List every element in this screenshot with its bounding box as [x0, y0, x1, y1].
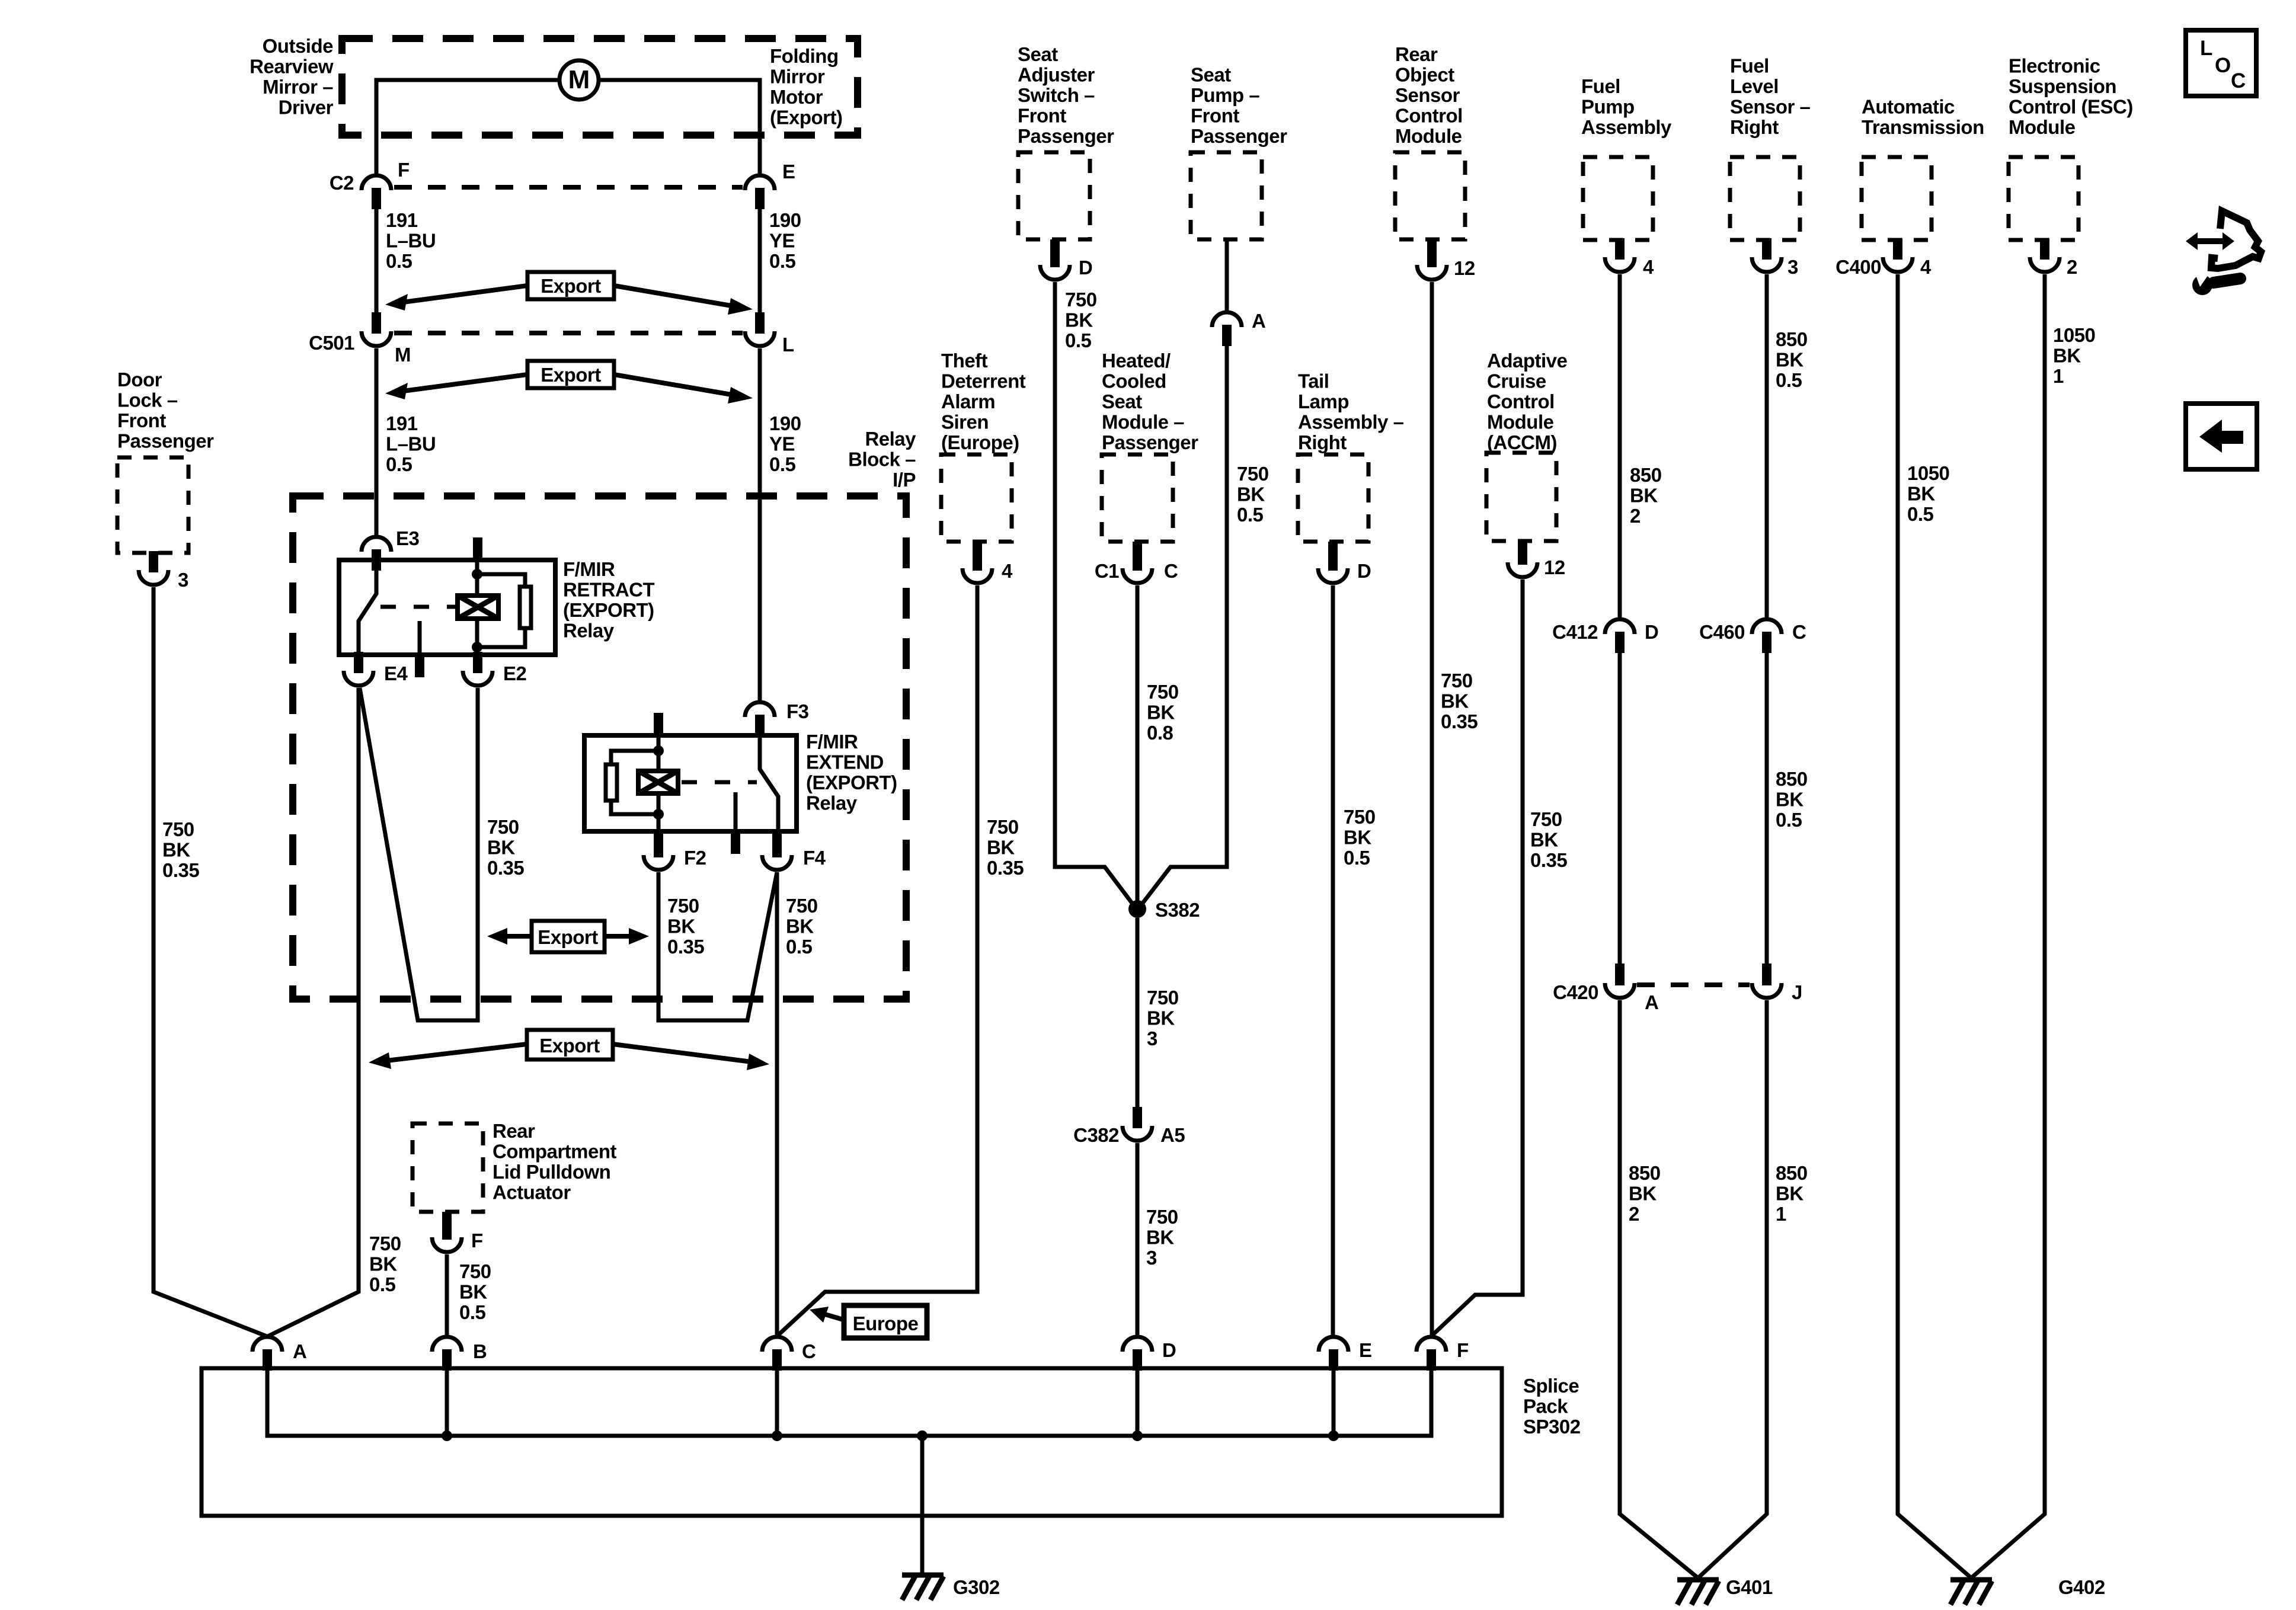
svg-text:B: B: [473, 1340, 487, 1362]
svg-text:E4: E4: [384, 662, 408, 684]
wire rear object to F: [1430, 282, 1434, 1335]
wire C420 J to G401: [1699, 1000, 1767, 1577]
svg-text:Export: Export: [541, 364, 601, 386]
relay K1 actuation dashed link: [380, 605, 458, 609]
Door Lock - Front Passenger: [117, 369, 214, 553]
Outside Rearview Mirror - Driver box: [250, 35, 858, 135]
Rear Compartment Lid Pulldown Actuator: [412, 1120, 617, 1212]
ACCM pin 12: [1508, 541, 1565, 578]
rear object pin 12: [1417, 239, 1475, 280]
svg-text:C1: C1: [1095, 560, 1119, 582]
svg-text:S382: S382: [1155, 899, 1200, 921]
connector F4: [762, 831, 826, 870]
auto transmission pin C400 4: [1835, 238, 1932, 278]
relay K1 resistor: [520, 587, 531, 628]
svg-text:3: 3: [1787, 256, 1798, 278]
Splice Pack SP302 box: [202, 1368, 1581, 1516]
heated pin C1-C: [1095, 542, 1178, 583]
wire theft to C: [778, 585, 977, 1335]
svg-text:C: C: [2231, 69, 2246, 92]
wire C382 to D: [1136, 1143, 1140, 1335]
splice pack connector D: [1123, 1337, 1176, 1371]
svg-text:Export: Export: [541, 275, 601, 297]
svg-text:C382: C382: [1073, 1124, 1119, 1146]
svg-text:C501: C501: [309, 332, 354, 354]
connector C420 J: [1752, 964, 1802, 1003]
svg-text:G402: G402: [2058, 1576, 2105, 1598]
svg-text:F: F: [398, 159, 410, 181]
svg-text:C400: C400: [1835, 256, 1881, 278]
relay K2 resistor branch: [611, 751, 658, 814]
legend back arrow box: [2186, 404, 2257, 469]
Relay Block - I/P box: [293, 428, 916, 999]
ground G302: [902, 1575, 1000, 1600]
svg-text:L: L: [2200, 37, 2212, 60]
ground G401: [1677, 1576, 1773, 1605]
wire E4 down to A: [268, 688, 359, 1336]
C2 connector dashed line: [394, 185, 743, 190]
relay K2 unused pin: [731, 792, 740, 854]
wire fuel level to C460: [1765, 274, 1769, 617]
relay K1 coil wires: [475, 560, 479, 655]
wire heated to S382: [1136, 585, 1140, 909]
svg-text:Export: Export: [538, 926, 598, 948]
svg-text:E2: E2: [503, 662, 527, 684]
ground G402: [1950, 1576, 2105, 1605]
relay K1 F/MIR RETRACT box: [339, 560, 555, 655]
Fuel Level Sensor - Right: [1730, 55, 1811, 241]
legend LOC box: [2186, 30, 2256, 96]
svg-text:4: 4: [1643, 256, 1654, 278]
wire seat pump upper: [1225, 239, 1229, 311]
svg-text:Europe: Europe: [853, 1313, 919, 1334]
motor M1: [559, 60, 599, 100]
Export callout 3: [487, 921, 649, 952]
svg-text:C: C: [802, 1340, 816, 1362]
svg-text:A: A: [1252, 310, 1265, 332]
theft pin 4: [962, 542, 1013, 583]
wire C412 to C420: [1618, 653, 1622, 965]
splice pack internal bus: [267, 1369, 1431, 1436]
connector C420 A: [1553, 964, 1658, 1013]
connector C501 pin M: [309, 312, 411, 366]
wire 191 lower: [375, 348, 379, 535]
wire seat pump to S382: [1141, 346, 1227, 905]
relay K1 top pin stub: [473, 537, 482, 560]
splice pack connector E: [1319, 1337, 1372, 1371]
relay K2 actuation dashed link: [682, 780, 757, 785]
wire auto transmission to G402: [1898, 274, 1971, 1577]
splice pack connector A: [252, 1337, 306, 1371]
connector F2: [644, 831, 706, 870]
wire to G302: [920, 1436, 925, 1574]
svg-text:2: 2: [2067, 256, 2077, 278]
door lock pin 3: [139, 551, 188, 591]
wire seat adjuster to S382: [1055, 282, 1134, 905]
connector E4: [344, 652, 408, 686]
relay K2 junction dots: [653, 745, 664, 756]
relay K1 resistor branch: [477, 574, 525, 647]
connector C460 C: [1699, 619, 1806, 653]
svg-text:4: 4: [1002, 560, 1013, 582]
wire F2 to F4 U-turn: [658, 872, 777, 1020]
connector C382 A5: [1073, 1107, 1185, 1146]
tail lamp pin D: [1318, 542, 1371, 583]
wire F4 down to C: [775, 872, 779, 1335]
svg-text:D: D: [1645, 621, 1658, 643]
svg-text:F: F: [1457, 1339, 1469, 1361]
splice S382: [1128, 899, 1200, 921]
connector F3: [745, 700, 809, 736]
wire motor right: [599, 80, 760, 174]
svg-text:F: F: [471, 1230, 483, 1251]
relay K2 top pin stub: [654, 713, 663, 735]
wire rear compartment to B: [445, 1254, 449, 1335]
svg-text:F2: F2: [684, 847, 706, 869]
ESC pin 2: [2030, 238, 2077, 278]
connector E2: [463, 652, 527, 686]
wire C420 to G401: [1620, 1000, 1697, 1577]
svg-text:12: 12: [1454, 257, 1475, 279]
Adaptive Cruise Control Module (ACCM): [1486, 350, 1568, 541]
Seat Adjuster Switch - Front Passenger: [1018, 43, 1114, 239]
relay K2 resistor: [606, 764, 617, 801]
svg-text:E: E: [782, 161, 795, 183]
fuel level pin 3: [1752, 238, 1798, 278]
wire C460 to C420: [1765, 653, 1769, 965]
fuel pump pin 4: [1605, 238, 1654, 278]
svg-text:F3: F3: [786, 700, 809, 722]
wire door lock to A: [154, 587, 267, 1336]
Export callout 1: [385, 272, 753, 315]
Electronic Suspension Control (ESC) Module: [2009, 55, 2133, 241]
connector C2 pin E: [745, 161, 795, 209]
svg-text:E: E: [1359, 1339, 1372, 1361]
relay K2 switch: [760, 737, 778, 831]
relay K1 coil: [458, 596, 498, 619]
svg-text:C: C: [1792, 621, 1806, 643]
svg-text:L: L: [782, 334, 794, 356]
relay K1 switch: [359, 561, 376, 655]
svg-text:C460: C460: [1699, 621, 1745, 643]
svg-text:E3: E3: [396, 527, 420, 549]
Fuel Pump Assembly: [1581, 75, 1672, 240]
Europe callout: [810, 1305, 927, 1338]
rear compartment pin F: [432, 1212, 483, 1252]
relay K1 junction dots: [472, 569, 482, 580]
svg-text:O: O: [2215, 54, 2231, 77]
wire fuel pump to C412: [1618, 274, 1622, 617]
svg-text:G302: G302: [953, 1576, 1000, 1598]
svg-text:12: 12: [1544, 556, 1565, 578]
svg-text:4: 4: [1920, 256, 1932, 278]
svg-text:M: M: [395, 344, 411, 366]
wire ESC to G402: [1972, 274, 2045, 1577]
svg-text:C420: C420: [1553, 981, 1598, 1003]
wire S382 to C382: [1136, 918, 1140, 1114]
C501 connector dashed line: [394, 331, 743, 335]
Automatic Transmission: [1862, 96, 1984, 241]
C420 dashed line: [1637, 982, 1750, 987]
svg-text:A: A: [1645, 991, 1658, 1013]
svg-text:M: M: [568, 65, 590, 94]
svg-text:C412: C412: [1552, 621, 1598, 643]
Export callout 4: [369, 1030, 769, 1070]
wire tail lamp to E: [1331, 585, 1335, 1335]
Export callout 2: [385, 361, 753, 404]
legend component icon: [2186, 211, 2261, 295]
Tail Lamp Assembly - Right: [1298, 370, 1404, 542]
relay K2 coil: [638, 771, 678, 793]
seat adjuster pin D: [1040, 239, 1092, 280]
splice bus junction dots: [442, 1430, 1339, 1441]
splice pack connector C: [762, 1337, 816, 1371]
wire E4 to E2 U-turn: [360, 688, 478, 1020]
wire 191 upper: [375, 209, 379, 313]
Seat Pump - Front Passenger: [1191, 64, 1287, 240]
svg-text:D: D: [1079, 257, 1092, 279]
Rear Object Sensor Control Module: [1395, 43, 1465, 239]
relay K2 coil wires: [657, 735, 661, 831]
svg-text:F4: F4: [803, 847, 826, 869]
wire 190 upper: [758, 209, 762, 700]
relay K1 unused pin: [415, 621, 424, 677]
wire motor left: [376, 80, 559, 174]
svg-text:J: J: [1792, 981, 1802, 1003]
relay K2 F/MIR EXTEND box: [584, 735, 797, 831]
svg-text:3: 3: [178, 569, 188, 591]
svg-text:D: D: [1357, 560, 1371, 582]
Theft Deterrent Alarm Siren (Europe): [941, 350, 1026, 542]
svg-text:A: A: [293, 1340, 306, 1362]
svg-text:G401: G401: [1726, 1576, 1773, 1598]
connector E3: [362, 527, 420, 571]
svg-text:A5: A5: [1160, 1124, 1185, 1146]
splice pack connector F: [1416, 1337, 1469, 1371]
splice pack connector B: [432, 1337, 487, 1371]
svg-text:Export: Export: [539, 1035, 600, 1057]
wire ACCM to F: [1432, 580, 1523, 1335]
connector C501 pin L: [745, 312, 794, 356]
svg-text:C: C: [1164, 560, 1178, 582]
Heated/Cooled Seat Module - Passenger: [1102, 350, 1198, 542]
connector C412 D: [1552, 619, 1658, 653]
svg-text:C2: C2: [330, 172, 354, 194]
connector A seat pump: [1212, 310, 1265, 346]
svg-text:D: D: [1162, 1339, 1176, 1361]
connector C2 pin F: [330, 159, 410, 209]
